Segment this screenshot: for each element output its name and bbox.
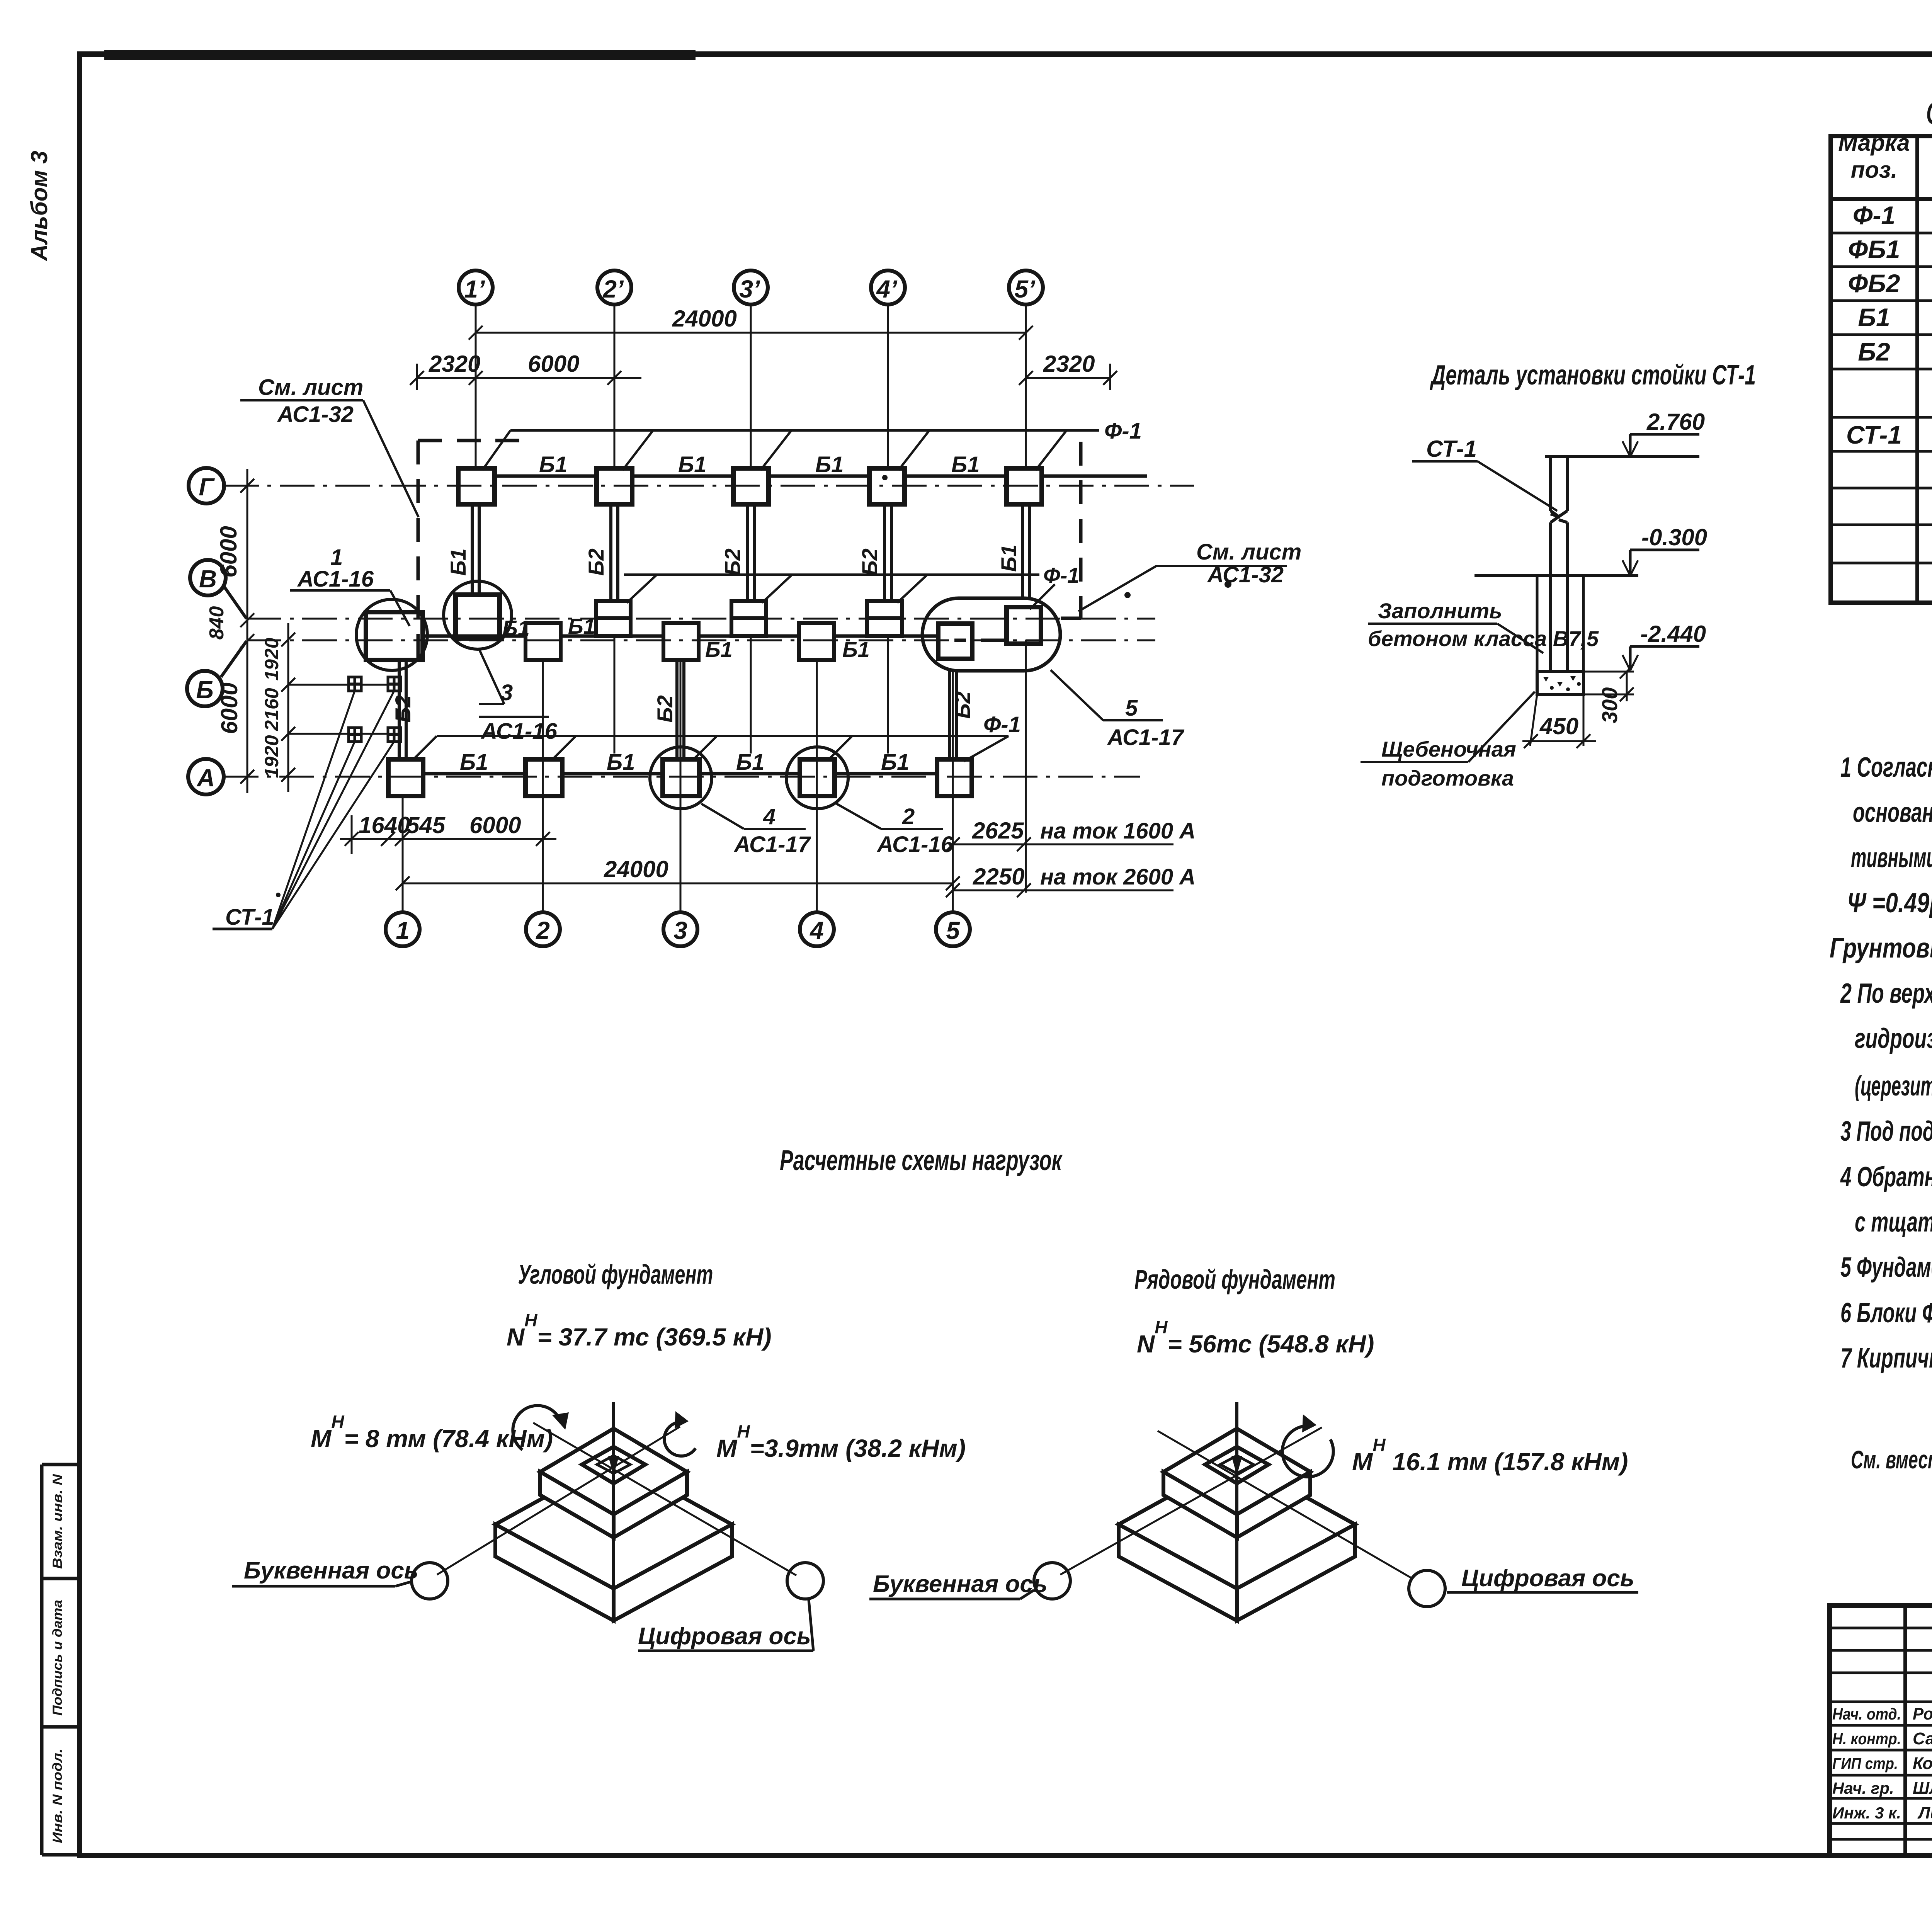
column lines: [1915, 136, 1919, 603]
svg-text:Расчетные схемы нагрузок: Расчетные схемы нагрузок: [780, 1144, 1063, 1176]
ground line: [1475, 574, 1638, 577]
row Г beam labels Б1: [539, 452, 980, 477]
letter axis diagonal: [437, 1427, 680, 1575]
svg-text:2320: 2320: [429, 351, 480, 377]
svg-text:ГИП стр.: ГИП стр.: [1832, 1754, 1898, 1772]
svg-text:Подпись и дата: Подпись и дата: [50, 1600, 65, 1716]
svg-text:бетоном класса В7,5: бетоном класса В7,5: [1368, 626, 1599, 651]
svg-text:3: 3: [500, 680, 513, 705]
leader 5/АС1-17: [1051, 670, 1103, 720]
level -2.440: [1622, 646, 1699, 670]
middle row squares: circled sq axis1: [366, 612, 423, 660]
row Б1: [1858, 299, 1932, 335]
middle row: beam line: [423, 634, 938, 638]
svg-text:Ф-1: Ф-1: [1853, 201, 1895, 230]
svg-text:1920: 1920: [261, 638, 282, 680]
row Ф-1: [1853, 197, 1932, 233]
svg-text:Ф-1: Ф-1: [1104, 418, 1142, 444]
level 2.760: [1622, 434, 1699, 457]
svg-text:Б1: Б1: [881, 750, 909, 775]
svg-text:См. вместе с листами АС1-16;17: См. вместе с листами АС1-16;17, 32: [1851, 1445, 1932, 1474]
row foundation (right): [869, 1264, 1638, 1621]
circled sq axis 1': [456, 595, 500, 638]
moment arc left: [513, 1405, 560, 1450]
svg-text:Цифровая ось: Цифровая ось: [638, 1623, 811, 1650]
svg-text:Б1: Б1: [736, 750, 764, 775]
header texts: [1838, 130, 1932, 192]
svg-text:ФБ2: ФБ2: [1848, 269, 1900, 298]
svg-text:с тщательным послойным уплотне: с тщательным послойным уплотнением, искл…: [1855, 1207, 1932, 1238]
svg-text:4: 4: [763, 804, 776, 829]
dim 2250 / на ток 2600 А: [946, 883, 1173, 897]
svg-text:2625: 2625: [972, 818, 1024, 844]
svg-text:4 Обратную засыпку пазух котло: 4 Обратную засыпку пазух котлованов прои…: [1840, 1162, 1932, 1192]
svg-text:2: 2: [536, 917, 550, 944]
SPECTABLE: [1831, 96, 1932, 603]
svg-text:2160: 2160: [261, 688, 282, 731]
svg-text:Б1: Б1: [951, 452, 980, 477]
svg-text:Буквенная ось: Буквенная ось: [244, 1557, 418, 1584]
svg-text:6000: 6000: [469, 812, 521, 838]
corner foundation (left): [232, 1259, 966, 1651]
left vertical dim line 6000/840/6000: [240, 469, 254, 793]
svg-text:Лизунова: Лизунова: [1917, 1803, 1932, 1822]
svg-text:Инв. N подл.: Инв. N подл.: [50, 1749, 65, 1843]
svg-text:Б1: Б1: [815, 452, 844, 477]
svg-text:840: 840: [206, 606, 228, 640]
svg-text:Щебеночная: Щебеночная: [1381, 737, 1516, 761]
beams vertical middle to А: [399, 660, 956, 759]
TITLEBLOCK: [1830, 1471, 1932, 1857]
svg-text:АС1-17: АС1-17: [1107, 725, 1185, 750]
axis line Г dash-dot: [224, 485, 1194, 487]
svg-text:Б1: Б1: [842, 637, 870, 662]
svg-text:Г: Г: [199, 473, 215, 501]
svg-text:6 Блоки ФБ укладывать на бетон: 6 Блоки ФБ укладывать на бетоне класса В…: [1840, 1298, 1932, 1328]
svg-text:Б1: Б1: [460, 750, 488, 775]
row Б2: [1858, 333, 1932, 369]
svg-text:Шленова: Шленова: [1913, 1779, 1932, 1798]
svg-text:В: В: [199, 565, 217, 593]
main title block outline: [1830, 1606, 1932, 1856]
axis line А dash-dot: [224, 776, 1140, 778]
svg-text:Б2: Б2: [857, 548, 882, 576]
svg-text:Ф-1: Ф-1: [1043, 563, 1080, 587]
svg-text:4: 4: [809, 917, 824, 944]
svg-text:(церезит, алюминат натрия, бит: (церезит, алюминат натрия, битумные маст…: [1855, 1071, 1932, 1102]
svg-text:1’: 1’: [464, 275, 485, 303]
left stamp column: [42, 1465, 80, 1855]
row ФБ2: [1848, 265, 1932, 301]
svg-text:5 Фундаментные балки укладыват: 5 Фундаментные балки укладывать на бетон…: [1840, 1252, 1932, 1283]
svg-text:6000: 6000: [528, 351, 579, 377]
svg-text:Сашок: Сашок: [1913, 1729, 1932, 1748]
svg-text:АС1-17: АС1-17: [733, 832, 811, 857]
svg-text:Б1: Б1: [446, 548, 470, 576]
svg-text:подготовка: подготовка: [1381, 766, 1514, 790]
svg-text:Б1: Б1: [1858, 303, 1890, 332]
digit axis diagonal: [533, 1423, 796, 1575]
table grid: [1831, 136, 1932, 603]
svg-text:2’: 2’: [602, 275, 624, 303]
svg-text:-2.440: -2.440: [1640, 621, 1706, 647]
svg-text:на ток 1600 А: на ток 1600 А: [1040, 818, 1196, 844]
svg-text:Б1: Б1: [568, 614, 595, 638]
svg-text:2320: 2320: [1043, 351, 1095, 377]
svg-text:См. лист: См. лист: [1196, 539, 1301, 565]
svg-text:Б1: Б1: [607, 750, 635, 775]
svg-text:на ток 2600 А: на ток 2600 А: [1040, 864, 1196, 890]
svg-text:ФБ1: ФБ1: [1848, 235, 1900, 264]
svg-text:-0.300: -0.300: [1641, 524, 1707, 550]
svg-text:СТ-1: СТ-1: [1426, 436, 1477, 462]
axis verticals primed: [476, 304, 1026, 893]
svg-text:основанием здания являются пес: основанием здания являются пески мелкозе…: [1853, 797, 1932, 828]
svg-text:1920: 1920: [261, 735, 282, 778]
svg-text:Б1: Б1: [502, 616, 530, 640]
bottom slab (щебеночная подготовка): [1537, 672, 1583, 694]
svg-text:АС1-16: АС1-16: [876, 832, 954, 857]
svg-text:4’: 4’: [876, 275, 898, 303]
dim 24000 bottom: [396, 876, 960, 890]
row ФБ1: [1848, 231, 1932, 267]
svg-text:5’: 5’: [1014, 275, 1036, 303]
svg-text:Угловой фундамент: Угловой фундамент: [518, 1259, 713, 1289]
leader 1/АС1-16 top left: [290, 590, 410, 626]
row lines: [1831, 232, 1932, 235]
dim 2320 top right: [1019, 364, 1117, 390]
svg-text:Б1: Б1: [997, 544, 1021, 572]
svg-text:2 По верху фундаментных балок: 2 По верху фундаментных балок и блоков в…: [1840, 978, 1932, 1009]
svg-text:1: 1: [396, 917, 410, 944]
middle Ф-1 leader: [624, 575, 1039, 603]
svg-text:1640: 1640: [359, 812, 410, 838]
svg-text:СТ-1: СТ-1: [225, 905, 274, 930]
svg-text:АС1-16: АС1-16: [480, 719, 558, 744]
svg-text:24000: 24000: [604, 856, 668, 882]
dim 450 under slab: [1522, 694, 1596, 748]
foundation body: [495, 1402, 732, 1621]
grid axis circles top 1'-5': [459, 270, 1043, 304]
svg-text:Н. контр.: Н. контр.: [1832, 1730, 1901, 1748]
dim line 2320/6000 top left: [410, 364, 641, 390]
svg-text:Б1: Б1: [539, 452, 567, 477]
svg-text:3’: 3’: [739, 275, 760, 303]
leader 2/АС1-16: [837, 804, 881, 829]
post (стойка): [1545, 457, 1699, 672]
svg-text:6000: 6000: [216, 682, 242, 734]
svg-text:7 Кирпичный цоколь толщиной 38: 7 Кирпичный цоколь толщиной 380 мм уклад…: [1840, 1343, 1932, 1374]
svg-text:2.760: 2.760: [1646, 409, 1705, 435]
svg-text:Роменский: Роменский: [1913, 1704, 1932, 1723]
svg-text:Спецификация элементов к схеме: Спецификация элементов к схеме расположе…: [1926, 96, 1932, 130]
svg-text:Б2: Б2: [584, 548, 608, 576]
digit axis circle: [787, 1563, 823, 1599]
Ф-1 leader near oval: [1030, 584, 1055, 609]
svg-text:Инж. 3 к.: Инж. 3 к.: [1832, 1804, 1901, 1822]
svg-text:АС1-32: АС1-32: [277, 402, 354, 427]
svg-text:Грунтовые воды отсутствуют.: Грунтовые воды отсутствуют.: [1830, 933, 1932, 964]
svg-text:450: 450: [1539, 713, 1578, 739]
svg-text:Б2: Б2: [653, 695, 677, 723]
SCHEMES: [232, 1144, 1638, 1651]
svg-text:Деталь установки стойки СТ-1: Деталь установки стойки СТ-1: [1430, 360, 1756, 391]
axis line В dash-dot: [224, 587, 247, 619]
svg-text:Цифровая ось: Цифровая ось: [1461, 1565, 1634, 1592]
second vertical dim 1920/2160/1920: [281, 623, 401, 792]
person names: [1913, 1704, 1932, 1822]
level -0.300: [1622, 550, 1699, 576]
pit walls: [1537, 576, 1583, 694]
svg-text:545: 545: [406, 812, 446, 838]
row А squares: [388, 759, 972, 796]
svg-text:Рядовой фундамент: Рядовой фундамент: [1134, 1264, 1335, 1294]
svg-text:гидроизоляцию толщиной 50мм со: гидроизоляцию толщиной 50мм состава 1:2 …: [1855, 1023, 1932, 1054]
DETAIL: [1361, 360, 1756, 790]
dim 1640/545/6000 bottom: [340, 815, 556, 854]
svg-text:24000: 24000: [672, 306, 737, 332]
left part verticals: [1905, 1606, 1932, 1856]
svg-text:2: 2: [902, 804, 915, 829]
oval with two squares axes 5,5': [922, 598, 1060, 671]
svg-text:5: 5: [946, 917, 960, 944]
dim line 24000 top: [469, 326, 1033, 340]
stacked (double) squares axes 2',3',4': [596, 601, 902, 636]
svg-text:Б1: Б1: [705, 637, 733, 662]
svg-text:300: 300: [1597, 687, 1622, 723]
svg-text:2250: 2250: [973, 864, 1024, 890]
header line: [1831, 197, 1932, 201]
svg-text:Ф-1: Ф-1: [983, 712, 1021, 737]
lower middle squares axes 2,3,4: [526, 623, 834, 660]
dim 2625 / на ток 1600 А: [946, 837, 1173, 851]
svg-text:Ψ =0.49рад, γ´=1.8т/м,³ С=2кП: Ψ =0.49рад, γ´=1.8т/м,³ С=2кПа (0.02кгс/…: [1847, 888, 1932, 919]
svg-text:Взам. инв. N: Взам. инв. N: [50, 1473, 65, 1569]
svg-text:СТ-1: СТ-1: [1846, 420, 1902, 449]
svg-text:Нач. отд.: Нач. отд.: [1832, 1705, 1901, 1723]
svg-text:тивными прочностными и деформа: тивными прочностными и деформационными х…: [1851, 842, 1932, 873]
row А beam lines: [423, 772, 937, 776]
NOTES: [1830, 752, 1932, 1474]
svg-text:3: 3: [673, 917, 687, 944]
svg-text:1 Согласно технического отчета: 1 Согласно технического отчета по инжене…: [1840, 752, 1932, 783]
row СТ-1: [1846, 417, 1932, 451]
svg-text:Б2: Б2: [1858, 337, 1890, 366]
grid axis circles bottom 1-5: [386, 912, 970, 946]
PLAN: [187, 270, 1301, 946]
svg-text:Нач. гр.: Нач. гр.: [1832, 1779, 1894, 1797]
leader 4/АС1-17: [701, 804, 744, 829]
moment arc: [1282, 1426, 1333, 1477]
svg-text:Б2: Б2: [391, 695, 415, 723]
СТ-1 label and leaders: [213, 928, 272, 930]
axis verticals unprimed: [403, 660, 953, 912]
Ф-1 leader row Г: [482, 430, 1099, 470]
letter axis circle: [412, 1563, 448, 1599]
svg-text:Ковалев: Ковалев: [1913, 1754, 1932, 1773]
dashed building outline: [418, 441, 1081, 662]
beams vertical Г to middle: [472, 504, 1029, 603]
svg-text:А: А: [196, 764, 215, 792]
svg-text:Буквенная ось: Буквенная ось: [873, 1571, 1048, 1597]
svg-text:АС1-16: АС1-16: [297, 566, 374, 592]
Ф-1 leader row А: [413, 736, 1009, 761]
leader 3/АС1-16: [479, 649, 549, 717]
row Г beam line: [495, 475, 1147, 478]
left part row lines: [1830, 1628, 1932, 1839]
svg-text:См. лист: См. лист: [258, 375, 363, 400]
svg-text:3 Под подошвой фундаментов вып: 3 Под подошвой фундаментов выполнить пес…: [1840, 1116, 1932, 1147]
svg-text:5: 5: [1125, 696, 1138, 721]
middle row labels: [502, 614, 870, 662]
СТ-1 stand squares: [349, 677, 401, 742]
svg-text:Б2: Б2: [950, 691, 975, 719]
scan artifacts: [104, 50, 696, 60]
svg-text:Заполнить: Заполнить: [1378, 599, 1502, 623]
role names: [1832, 1705, 1901, 1822]
svg-text:Альбом 3: Альбом 3: [26, 151, 52, 262]
row Г squares: [458, 468, 1042, 504]
moment arc right: [664, 1422, 696, 1456]
axis line Б dash-dot: [221, 641, 247, 677]
dim 300 right of slab: [1583, 665, 1634, 701]
svg-text:6000: 6000: [216, 526, 241, 577]
svg-text:Б: Б: [196, 676, 213, 704]
grid axis circles left Г В Б А: [187, 468, 226, 794]
svg-text:Б1: Б1: [678, 452, 706, 477]
svg-text:Б2: Б2: [720, 548, 745, 576]
